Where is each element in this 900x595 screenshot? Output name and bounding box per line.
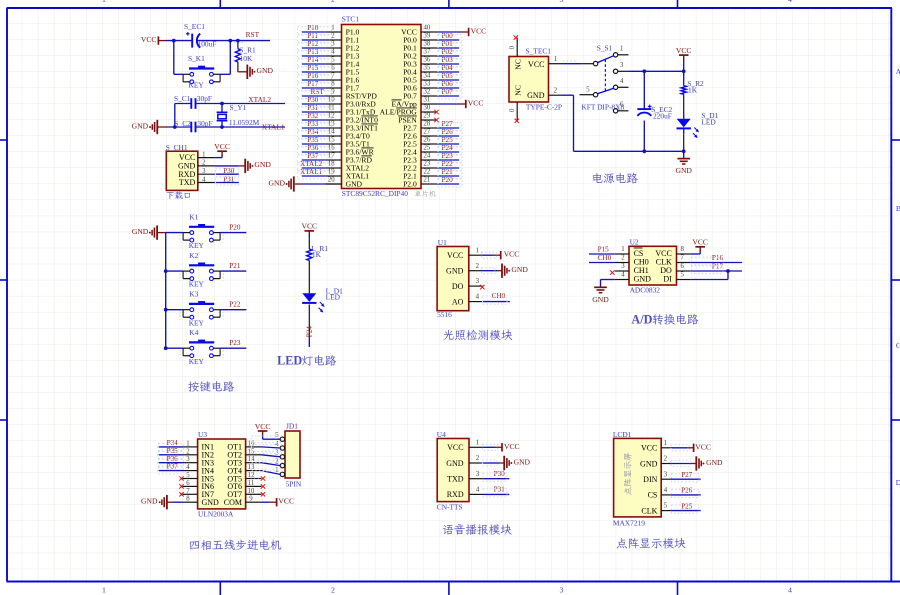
svg-text:34: 34 [424, 73, 431, 80]
svg-text:CS: CS [648, 491, 658, 500]
svg-text:P05: P05 [442, 72, 454, 80]
svg-text:3: 3 [621, 263, 625, 270]
svg-text:LCD1: LCD1 [613, 430, 632, 439]
svg-text:5PIN: 5PIN [286, 480, 302, 489]
svg-text:P26: P26 [442, 128, 454, 136]
svg-text:38: 38 [424, 41, 431, 48]
svg-text:NC: NC [513, 85, 522, 96]
svg-text:ADC0832: ADC0832 [630, 286, 661, 295]
svg-text:VCC: VCC [504, 250, 520, 259]
svg-text:XTAL1: XTAL1 [300, 168, 323, 176]
svg-text:VCC: VCC [278, 497, 294, 506]
svg-text:0: 0 [509, 108, 516, 112]
svg-text:0: 0 [509, 45, 516, 49]
svg-text:2: 2 [186, 448, 190, 455]
svg-text:P30: P30 [223, 167, 235, 175]
svg-text:P25: P25 [681, 502, 693, 510]
svg-text:K3: K3 [189, 290, 198, 299]
svg-text:1: 1 [554, 56, 557, 63]
svg-text:3: 3 [560, 585, 564, 594]
svg-text:S_K1: S_K1 [188, 54, 205, 63]
svg-text:1K: 1K [312, 250, 322, 259]
svg-text:P06: P06 [442, 80, 454, 88]
svg-text:220uF: 220uF [653, 112, 672, 121]
svg-text:LED: LED [701, 118, 716, 127]
svg-text:P34: P34 [307, 128, 319, 136]
svg-text:P24: P24 [442, 144, 454, 152]
svg-text:GND: GND [706, 458, 723, 467]
svg-text:P07: P07 [442, 88, 454, 96]
svg-text:P33: P33 [307, 120, 319, 128]
svg-text:CN-TTS: CN-TTS [437, 502, 463, 511]
svg-text:P22: P22 [442, 160, 454, 168]
svg-text:P26: P26 [681, 487, 693, 495]
svg-text:31: 31 [424, 97, 431, 104]
svg-text:4: 4 [664, 487, 668, 494]
svg-text:22: 22 [424, 169, 431, 176]
svg-text:S_S1: S_S1 [597, 43, 613, 52]
svg-text:P00: P00 [442, 32, 454, 40]
svg-text:28: 28 [424, 121, 431, 128]
svg-text:GND: GND [634, 275, 652, 284]
svg-text:1: 1 [102, 0, 106, 4]
svg-text:VCC: VCC [447, 443, 463, 452]
svg-text:CH0: CH0 [598, 254, 612, 262]
svg-text:LED: LED [277, 354, 302, 368]
svg-text:3: 3 [560, 0, 564, 4]
svg-text:1: 1 [476, 439, 479, 446]
svg-text:1K: 1K [688, 86, 698, 95]
svg-text:11.0592M: 11.0592M [229, 118, 260, 127]
svg-text:27: 27 [424, 129, 431, 136]
svg-text:P20: P20 [442, 176, 454, 184]
svg-text:U3: U3 [198, 430, 207, 439]
svg-text:VCC: VCC [141, 35, 157, 44]
svg-text:P20: P20 [229, 223, 241, 231]
svg-text:P16: P16 [307, 72, 319, 80]
svg-text:VCC: VCC [468, 99, 484, 108]
svg-text:3: 3 [664, 471, 668, 478]
svg-text:4: 4 [788, 585, 792, 594]
svg-text:4: 4 [788, 0, 792, 4]
svg-text:GND: GND [202, 498, 220, 507]
svg-text:37: 37 [424, 49, 431, 56]
svg-text:1: 1 [664, 440, 667, 447]
svg-text:P27: P27 [442, 120, 454, 128]
svg-text:VCC: VCC [504, 442, 520, 451]
svg-text:P02: P02 [442, 48, 454, 56]
svg-text:DO: DO [452, 282, 464, 291]
svg-text:P36: P36 [307, 144, 319, 152]
svg-text:GND: GND [269, 179, 286, 188]
svg-text:S_TEC1: S_TEC1 [526, 47, 552, 56]
svg-text:VCC: VCC [447, 251, 463, 260]
svg-text:P21: P21 [229, 262, 241, 270]
svg-text:P30: P30 [307, 96, 319, 104]
svg-text:S_CH1: S_CH1 [166, 143, 188, 152]
svg-text:U4: U4 [437, 430, 446, 439]
svg-text:4: 4 [621, 272, 625, 279]
svg-text:2: 2 [664, 456, 668, 463]
svg-text:40: 40 [424, 25, 431, 32]
svg-text:STC89C52RC_DIP40: STC89C52RC_DIP40 [342, 189, 408, 198]
svg-text:S_EC1: S_EC1 [184, 22, 205, 31]
svg-text:P11: P11 [307, 32, 318, 40]
svg-text:U2: U2 [630, 237, 639, 246]
svg-text:RST: RST [311, 88, 325, 96]
svg-text:K2: K2 [189, 251, 198, 260]
svg-text:2: 2 [331, 0, 335, 4]
svg-text:1: 1 [186, 440, 189, 447]
svg-text:P30: P30 [494, 470, 506, 478]
svg-text:2: 2 [621, 255, 625, 262]
svg-text:VCC: VCC [471, 27, 487, 36]
svg-text:VCC: VCC [255, 422, 271, 431]
svg-text:39: 39 [424, 33, 431, 40]
svg-text:20: 20 [328, 177, 335, 184]
svg-text:DIN: DIN [643, 475, 657, 484]
svg-text:VCC: VCC [676, 46, 692, 55]
svg-text:30: 30 [424, 105, 431, 112]
svg-text:GND: GND [446, 267, 464, 276]
svg-text:P37: P37 [307, 152, 319, 160]
svg-text:5: 5 [680, 272, 684, 279]
svg-text:3: 3 [186, 456, 190, 463]
svg-text:25: 25 [424, 145, 431, 152]
svg-text:P04: P04 [442, 64, 454, 72]
svg-text:KEY: KEY [189, 81, 205, 90]
svg-text:P21: P21 [442, 168, 454, 176]
svg-text:AO: AO [452, 297, 464, 306]
svg-text:P22: P22 [229, 301, 241, 309]
svg-text:KEY: KEY [189, 357, 205, 366]
svg-text:7: 7 [680, 255, 684, 262]
svg-text:26: 26 [424, 137, 431, 144]
svg-text:P12: P12 [307, 40, 319, 48]
svg-text:5: 5 [664, 503, 668, 510]
svg-text:VCC: VCC [695, 442, 711, 451]
svg-text:P27: P27 [681, 471, 693, 479]
svg-text:35: 35 [424, 65, 431, 72]
svg-text:GND: GND [511, 265, 528, 274]
svg-text:21: 21 [424, 177, 431, 184]
svg-text:CLK: CLK [641, 506, 657, 515]
svg-text:P36: P36 [167, 455, 179, 463]
svg-text:4: 4 [476, 294, 480, 301]
svg-text:A: A [896, 67, 900, 76]
svg-text:ULN2003A: ULN2003A [198, 510, 234, 519]
svg-text:JD1: JD1 [286, 422, 298, 431]
svg-text:P15: P15 [598, 246, 610, 254]
svg-text:TXD: TXD [447, 475, 464, 484]
svg-text:XTAL1: XTAL1 [262, 122, 285, 131]
svg-text:32: 32 [424, 89, 431, 96]
svg-text:MAX7219: MAX7219 [613, 518, 645, 527]
svg-text:KEY: KEY [189, 318, 205, 327]
svg-text:6: 6 [680, 263, 684, 270]
svg-text:8: 8 [186, 496, 190, 503]
svg-text:3: 3 [476, 278, 480, 285]
svg-text:2: 2 [331, 585, 335, 594]
svg-text:6: 6 [620, 102, 624, 109]
svg-text:P10: P10 [307, 24, 319, 32]
svg-text:S_C1: S_C1 [174, 94, 191, 103]
svg-text:K1: K1 [189, 212, 198, 221]
svg-text:GND: GND [675, 166, 692, 175]
svg-text:P25: P25 [442, 136, 454, 144]
svg-text:TYPE-C-2P: TYPE-C-2P [526, 103, 562, 112]
svg-text:P03: P03 [442, 56, 454, 64]
svg-text:P01: P01 [442, 40, 454, 48]
svg-text:KEY: KEY [189, 241, 205, 250]
svg-text:8: 8 [680, 246, 684, 253]
svg-text:2: 2 [476, 263, 480, 270]
svg-text:GND: GND [132, 227, 149, 236]
svg-text:4: 4 [620, 78, 624, 85]
svg-text:U1: U1 [438, 238, 447, 247]
svg-text:GND: GND [527, 91, 545, 100]
svg-text:4: 4 [186, 464, 190, 471]
svg-text:30pF: 30pF [197, 94, 212, 103]
svg-text:2: 2 [202, 160, 206, 167]
svg-text:GND: GND [257, 66, 274, 75]
svg-text:P23: P23 [229, 339, 241, 347]
svg-text:3: 3 [202, 168, 206, 175]
svg-text:DI: DI [663, 275, 672, 284]
svg-text:GND: GND [141, 497, 158, 506]
svg-text:VCC: VCC [528, 60, 544, 69]
svg-text:GND: GND [514, 457, 531, 466]
svg-text:29: 29 [424, 113, 431, 120]
svg-text:D: D [896, 478, 900, 487]
svg-text:RXD: RXD [447, 490, 464, 499]
svg-text:GND: GND [132, 121, 149, 130]
svg-text:10: 10 [248, 488, 255, 495]
svg-text:6: 6 [186, 480, 190, 487]
svg-text:VCC: VCC [301, 222, 317, 231]
svg-text:P13: P13 [307, 48, 319, 56]
svg-text:P31: P31 [494, 486, 506, 494]
svg-text:1: 1 [476, 247, 479, 254]
svg-text:VCC: VCC [214, 142, 230, 151]
svg-text:STC1: STC1 [342, 15, 360, 24]
svg-text:5: 5 [586, 86, 590, 93]
svg-text:NC: NC [513, 59, 522, 70]
svg-text:P35: P35 [167, 447, 179, 455]
svg-text:GND: GND [592, 295, 609, 304]
svg-text:24: 24 [424, 153, 431, 160]
svg-text:P34: P34 [167, 439, 179, 447]
svg-text:K4: K4 [189, 328, 198, 337]
svg-text:GND: GND [346, 179, 363, 188]
svg-text:P23: P23 [442, 152, 454, 160]
svg-text:XTAL2: XTAL2 [300, 160, 323, 168]
svg-text:P2.0: P2.0 [403, 179, 417, 188]
svg-text:GND: GND [254, 160, 271, 169]
svg-text:9: 9 [249, 496, 253, 503]
svg-text:TXD: TXD [179, 178, 196, 187]
svg-text:RST: RST [246, 30, 260, 39]
svg-text:1: 1 [202, 151, 205, 158]
svg-text:VCC: VCC [641, 444, 657, 453]
svg-text:36: 36 [424, 57, 431, 64]
svg-text:LED: LED [326, 293, 341, 302]
svg-text:5516: 5516 [437, 310, 452, 319]
svg-text:GND: GND [640, 459, 658, 468]
svg-text:2: 2 [554, 88, 558, 95]
svg-text:P15: P15 [307, 64, 319, 72]
svg-text:1: 1 [102, 585, 106, 594]
svg-text:VCC: VCC [692, 238, 708, 247]
svg-text:7: 7 [186, 488, 190, 495]
svg-text:P32: P32 [307, 112, 319, 120]
svg-text:P24: P24 [306, 326, 314, 338]
svg-text:3: 3 [476, 471, 480, 478]
svg-text:P17: P17 [712, 263, 724, 271]
svg-text:P14: P14 [307, 56, 319, 64]
svg-text:P16: P16 [712, 254, 724, 262]
svg-text:100uF: 100uF [198, 40, 217, 49]
svg-text:P35: P35 [307, 136, 319, 144]
svg-text:S_Y1: S_Y1 [230, 103, 247, 112]
svg-text:KEY: KEY [189, 280, 205, 289]
svg-text:XTAL2: XTAL2 [248, 95, 271, 104]
svg-text:2: 2 [476, 455, 480, 462]
svg-text:11: 11 [248, 480, 255, 487]
svg-text:B: B [896, 204, 900, 213]
svg-text:5: 5 [186, 472, 190, 479]
svg-text:33: 33 [424, 81, 431, 88]
svg-text:4: 4 [202, 176, 206, 183]
svg-text:10K: 10K [240, 54, 253, 63]
svg-text:COM: COM [224, 498, 242, 507]
svg-text:3: 3 [620, 62, 624, 69]
svg-text:4: 4 [476, 487, 480, 494]
svg-text:1: 1 [621, 246, 624, 253]
svg-text:23: 23 [424, 161, 431, 168]
svg-text:C: C [896, 341, 900, 350]
svg-text:P17: P17 [307, 80, 319, 88]
svg-text:P37: P37 [167, 463, 179, 471]
svg-text:1: 1 [620, 46, 623, 53]
svg-text:A/D: A/D [631, 312, 652, 326]
svg-text:GND: GND [446, 459, 464, 468]
svg-text:S_C2: S_C2 [174, 119, 191, 128]
svg-text:P31: P31 [307, 104, 319, 112]
